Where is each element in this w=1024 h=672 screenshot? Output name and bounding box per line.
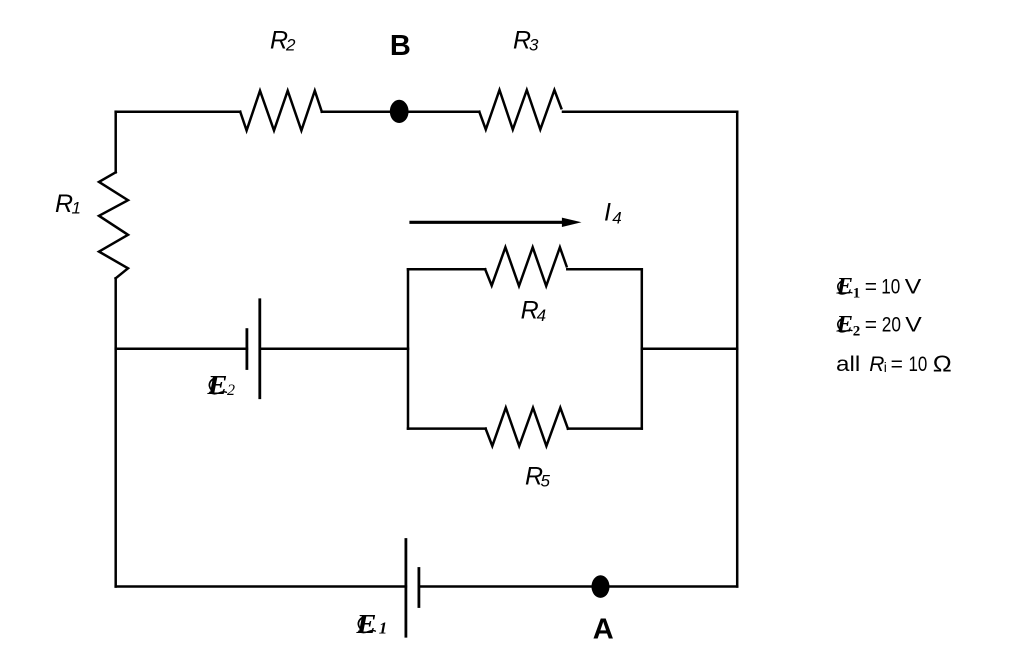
svg-text:1: 1 [853,286,861,302]
svg-text:4: 4 [537,306,546,325]
svg-text:I: I [604,199,611,227]
svg-text:V: V [905,313,922,336]
svg-text:5: 5 [541,471,551,490]
svg-text:A: A [593,614,614,646]
svg-text:E: E [835,274,853,299]
svg-text:1: 1 [379,619,388,638]
svg-text:E: E [355,609,376,639]
svg-text:10: 10 [881,276,900,299]
svg-text:3: 3 [529,35,539,54]
svg-text:E: E [835,311,853,336]
svg-text:10: 10 [909,353,928,376]
svg-text:i: i [884,359,887,375]
svg-text:all: all [836,353,860,376]
svg-text:Ω: Ω [933,350,952,376]
svg-text:4: 4 [612,209,621,228]
svg-text:=: = [891,353,903,376]
svg-text:R: R [55,190,73,218]
svg-text:2: 2 [227,382,235,399]
svg-text:1: 1 [72,198,81,217]
svg-text:20: 20 [882,313,901,336]
svg-text:V: V [905,276,922,299]
svg-text:B: B [390,30,411,62]
svg-text:=: = [865,276,877,299]
svg-text:=: = [865,313,877,336]
svg-text:2: 2 [853,323,861,339]
svg-text:R: R [869,353,884,376]
svg-text:2: 2 [285,35,296,54]
svg-text:E: E [206,370,227,400]
